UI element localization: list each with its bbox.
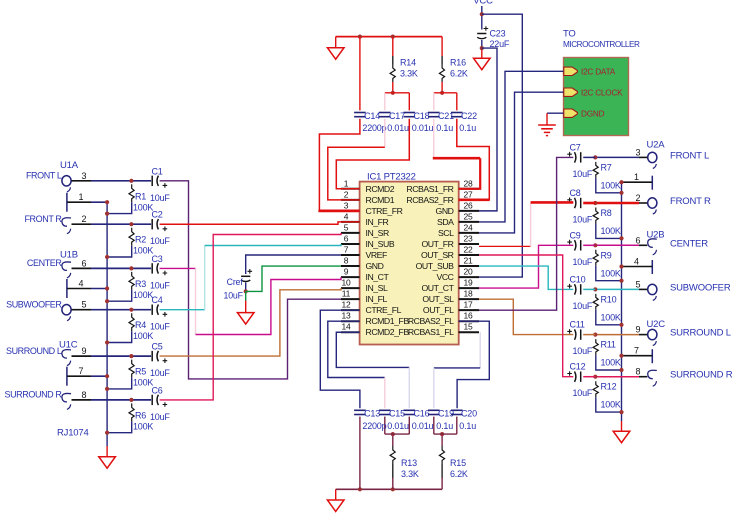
svg-text:FRONT L: FRONT L bbox=[26, 171, 62, 181]
wire pin 15 down (lavender) bbox=[479, 332, 481, 368]
svg-text:3.3K: 3.3K bbox=[401, 469, 419, 479]
wire OUT_FR to C8 bbox=[531, 201, 574, 204]
connector pin CENTER (curl) bbox=[62, 262, 71, 278]
wire bus to R16 bbox=[441, 37, 443, 56]
wire pin 28 riser bbox=[459, 158, 481, 189]
svg-text:VCC: VCC bbox=[473, 0, 493, 6]
lead R15 bottom black bbox=[441, 464, 443, 478]
svg-text:8: 8 bbox=[344, 256, 349, 266]
wire R16 junction spreader bbox=[434, 92, 457, 94]
svg-text:2: 2 bbox=[82, 214, 87, 224]
wire lead SURROUND R out bbox=[639, 376, 647, 378]
svg-text:SDA: SDA bbox=[437, 217, 454, 227]
wire cap C9 right lead bbox=[583, 244, 595, 246]
wire R9 to bus bbox=[596, 266, 622, 281]
svg-text:10uF: 10uF bbox=[573, 215, 593, 225]
svg-text:GND: GND bbox=[436, 206, 454, 216]
svg-text:GND: GND bbox=[366, 261, 384, 271]
svg-text:Cref: Cref bbox=[227, 277, 244, 287]
svg-text:C20: C20 bbox=[461, 409, 477, 419]
capacitor Cref 10uF bbox=[241, 269, 252, 282]
junction R13 top bbox=[391, 432, 395, 436]
wire Cref ground stub bbox=[245, 291, 247, 300]
svg-text:SURROUND L: SURROUND L bbox=[670, 328, 731, 339]
svg-text:8: 8 bbox=[636, 367, 641, 377]
resistor R12 100K bbox=[593, 381, 598, 397]
pin arrow I2C DATA bbox=[564, 67, 578, 75]
pin arrow DGND bbox=[564, 109, 578, 117]
pin 21 stub (OUT_SUB) bbox=[459, 265, 479, 267]
wire pin 15 stub ext bbox=[459, 331, 477, 333]
junction right bus R7 bbox=[619, 191, 623, 195]
junction C23 minus bbox=[480, 46, 484, 50]
svg-text:100K: 100K bbox=[133, 246, 153, 256]
junction C9 out bbox=[593, 243, 597, 247]
svg-text:DGND: DGND bbox=[581, 109, 605, 118]
svg-text:4: 4 bbox=[344, 211, 349, 221]
pin 25 stub (SDA) bbox=[459, 221, 479, 223]
lead R16 bottom bbox=[441, 82, 443, 93]
lead R13 top bbox=[392, 434, 394, 446]
svg-text:RCMD2_FB: RCMD2_FB bbox=[366, 327, 410, 337]
pin 13 stub (RCMD1_FB) bbox=[341, 320, 360, 322]
svg-text:SURROUND R: SURROUND R bbox=[4, 390, 62, 400]
wire R14 to C18 bbox=[408, 93, 410, 111]
resistor R14 3.3K bbox=[390, 64, 395, 82]
junction top bus R14 bbox=[391, 35, 395, 39]
wire lead FRONT L bbox=[72, 180, 92, 182]
junction SUBWOOFER row bbox=[129, 308, 133, 312]
pin 27 stub (RCBAS2_FR) bbox=[459, 199, 479, 201]
capacitor C6 10uF bbox=[152, 395, 167, 407]
svg-text:2200p: 2200p bbox=[362, 123, 386, 133]
svg-text:IN_FR: IN_FR bbox=[366, 217, 389, 227]
svg-text:17: 17 bbox=[463, 300, 473, 310]
svg-text:R12: R12 bbox=[601, 382, 617, 392]
junction Cref bbox=[244, 289, 248, 293]
wire right ground bus bbox=[621, 182, 623, 421]
svg-text:R10: R10 bbox=[601, 294, 617, 304]
pin 10 stub (IN_SL) bbox=[341, 287, 360, 289]
resistor R1 100K bbox=[129, 184, 134, 202]
svg-text:7: 7 bbox=[79, 366, 84, 376]
svg-text:100K: 100K bbox=[601, 312, 621, 322]
svg-text:R5: R5 bbox=[135, 367, 146, 377]
node left connector pin 7 stub bbox=[67, 367, 107, 386]
resistor R15 6.2K bbox=[439, 446, 444, 464]
junction bus row 4 bbox=[105, 286, 109, 290]
wire VCC stem bbox=[481, 6, 483, 30]
wire bottom bus bbox=[336, 488, 442, 490]
wire lead SURROUND R bbox=[72, 399, 92, 401]
capacitor C16 0.01u bbox=[404, 410, 416, 414]
junction top bus C14 bbox=[358, 35, 362, 39]
svg-text:9: 9 bbox=[82, 346, 87, 356]
capacitor C3 10uF bbox=[152, 263, 167, 275]
svg-text:0.01u: 0.01u bbox=[387, 421, 409, 431]
junction C8 out bbox=[593, 201, 597, 205]
junction bus R2 bbox=[105, 255, 109, 259]
svg-text:5: 5 bbox=[344, 222, 349, 232]
svg-text:3: 3 bbox=[82, 171, 87, 181]
svg-text:C7: C7 bbox=[570, 142, 581, 152]
wire C18 to pin 1 RCMD2 bbox=[336, 119, 409, 189]
svg-text:10uF: 10uF bbox=[573, 346, 593, 356]
svg-text:C4: C4 bbox=[152, 295, 163, 305]
svg-text:100K: 100K bbox=[601, 400, 621, 410]
junction right bus row 7 bbox=[619, 354, 623, 358]
junction bus R4 bbox=[105, 340, 109, 344]
junction C7 out bbox=[593, 155, 597, 159]
svg-text:RCBAS2_FL: RCBAS2_FL bbox=[408, 316, 454, 326]
svg-text:14: 14 bbox=[341, 322, 351, 332]
svg-text:SURROUND L: SURROUND L bbox=[6, 346, 62, 356]
svg-text:TO: TO bbox=[563, 29, 576, 40]
svg-text:20: 20 bbox=[463, 267, 473, 277]
wire lead FRONT R out bbox=[639, 202, 647, 204]
svg-text:VREF: VREF bbox=[366, 250, 388, 260]
svg-text:C18: C18 bbox=[414, 111, 430, 121]
svg-text:22: 22 bbox=[463, 245, 473, 255]
wire R5 to bus bbox=[107, 378, 132, 389]
wire C23 minus to pin 26 GND bbox=[479, 48, 497, 211]
pin 4 stub (IN_FR) bbox=[341, 221, 360, 223]
node right connector pin 4 stub bbox=[622, 260, 653, 274]
pin 2 stub (RCMD1) bbox=[341, 199, 360, 201]
junction CENTER row bbox=[129, 266, 133, 270]
wire C12 to connector bbox=[595, 376, 639, 378]
capacitor C11 10uF bbox=[567, 329, 580, 340]
wire pin 7 VREF to Cref bbox=[246, 255, 341, 274]
svg-text:2: 2 bbox=[636, 193, 641, 203]
resistor R7 100K bbox=[593, 162, 598, 178]
svg-text:7: 7 bbox=[634, 346, 639, 356]
ground left input bus bbox=[99, 457, 116, 469]
svg-text:CTRE_FR: CTRE_FR bbox=[366, 206, 403, 216]
svg-text:C8: C8 bbox=[570, 188, 581, 198]
svg-text:IN_SUB: IN_SUB bbox=[366, 239, 395, 249]
resistor R10 100K bbox=[593, 294, 598, 310]
svg-text:C3: C3 bbox=[152, 254, 163, 264]
wire I2C CLOCK to pin 24 SCL bbox=[479, 92, 564, 233]
svg-text:SCL: SCL bbox=[438, 228, 454, 238]
svg-text:10uF: 10uF bbox=[224, 291, 244, 301]
wire R1 to bus bbox=[107, 202, 132, 213]
connector pin SUBWOOFER out (circle) bbox=[648, 284, 657, 300]
wire lead CENTER out bbox=[639, 244, 647, 246]
wire pin 16 RCBAS2_FL to C20 bbox=[457, 321, 489, 408]
wire R16 to C21 (pale) bbox=[433, 93, 435, 111]
svg-text:2: 2 bbox=[344, 189, 349, 199]
capacitor C13 2200p bbox=[354, 410, 366, 414]
svg-text:C14: C14 bbox=[364, 111, 380, 121]
svg-text:C10: C10 bbox=[570, 274, 586, 284]
wire FRONT R to cap bbox=[91, 223, 151, 225]
wire R4 to bus bbox=[107, 331, 132, 342]
svg-text:RJ1074: RJ1074 bbox=[57, 428, 89, 439]
svg-text:SURROUND R: SURROUND R bbox=[670, 370, 733, 381]
svg-text:C12: C12 bbox=[570, 362, 586, 372]
wire C3 riser (pale) bbox=[195, 268, 197, 334]
junction C10 out bbox=[593, 287, 597, 291]
wire pin 17 OUT_FL to C7 bbox=[479, 157, 573, 310]
pin 1 stub (RCMD2) bbox=[341, 188, 360, 190]
svg-text:R9: R9 bbox=[601, 250, 612, 260]
svg-text:IN_FL: IN_FL bbox=[366, 294, 388, 304]
junction right bus R10 bbox=[619, 323, 623, 327]
svg-text:R6: R6 bbox=[135, 410, 146, 420]
svg-text:6: 6 bbox=[82, 258, 87, 268]
svg-text:100K: 100K bbox=[133, 331, 153, 341]
svg-text:C23: C23 bbox=[490, 29, 506, 39]
capacitor C23 22uF bbox=[477, 26, 488, 38]
wire R7 to bus bbox=[596, 178, 622, 193]
wire Cref to ground bbox=[245, 301, 247, 313]
wire lead SUBWOOFER out bbox=[639, 288, 647, 290]
svg-text:0.1u: 0.1u bbox=[436, 421, 453, 431]
wire C21 to pin 28 RCBAS1_FR bbox=[433, 157, 480, 160]
lead R13 bottom bbox=[392, 478, 394, 489]
svg-text:5: 5 bbox=[636, 279, 641, 289]
connector pin SURROUND L out (circle) bbox=[648, 329, 657, 345]
svg-text:SUBWOOFER: SUBWOOFER bbox=[6, 300, 62, 310]
capacitor C7 10uF bbox=[567, 152, 580, 163]
svg-text:C13: C13 bbox=[364, 409, 380, 419]
connector pin SURROUND L (curl) bbox=[62, 350, 71, 366]
svg-text:19: 19 bbox=[463, 278, 473, 288]
resistor R9 100K bbox=[593, 250, 598, 266]
svg-text:26: 26 bbox=[463, 200, 473, 210]
svg-text:IN_CT: IN_CT bbox=[366, 272, 390, 282]
svg-text:9: 9 bbox=[636, 325, 641, 335]
junction bottom bus R13 bbox=[391, 487, 395, 491]
lead R14 top bbox=[392, 56, 394, 64]
junction R14 bottom bbox=[391, 91, 395, 95]
connector pin FRONT L out (circle) bbox=[648, 152, 657, 168]
pin 17 stub (OUT_FL) bbox=[459, 309, 479, 311]
wire pin 19 OUT_CT to C9 bbox=[479, 245, 573, 288]
wire C20 to R15 bbox=[456, 417, 458, 435]
wire R3 to bus bbox=[107, 290, 132, 301]
connector pin FRONT R (curl) bbox=[62, 218, 71, 234]
capacitor C19 0.1u bbox=[428, 410, 440, 414]
svg-text:R3: R3 bbox=[135, 279, 146, 289]
wire bus to C14 bbox=[359, 37, 361, 111]
resistor R5 100K bbox=[129, 360, 134, 378]
wire cap C12 right lead bbox=[583, 376, 595, 378]
wire lead FRONT L out bbox=[639, 156, 647, 158]
capacitor C4 10uF bbox=[152, 305, 167, 317]
svg-text:25: 25 bbox=[463, 211, 473, 221]
ground Cref bbox=[237, 313, 254, 325]
pin 26 stub (GND) bbox=[459, 210, 479, 212]
svg-text:RCBAS1_FR: RCBAS1_FR bbox=[406, 184, 453, 194]
svg-text:R1: R1 bbox=[135, 191, 146, 201]
wire C3 to pin 9 IN_CT seg1 bbox=[160, 267, 196, 269]
svg-text:10uF: 10uF bbox=[150, 412, 170, 422]
svg-text:U2C: U2C bbox=[647, 319, 666, 330]
junction C11 out bbox=[593, 333, 597, 337]
svg-text:7: 7 bbox=[344, 245, 349, 255]
wire pin 13 RCMD1_FB to C15 bbox=[328, 321, 385, 377]
svg-text:OUT_SL: OUT_SL bbox=[422, 294, 454, 304]
junction right bus R11 bbox=[619, 368, 623, 372]
node left connector pin 4 stub bbox=[67, 279, 107, 298]
wire lead FRONT R bbox=[72, 223, 92, 225]
pin 7 stub (VREF) bbox=[341, 254, 360, 256]
wire SUBWOOFER to cap bbox=[91, 309, 151, 311]
svg-text:C22: C22 bbox=[461, 111, 477, 121]
wire pin 3 thick bbox=[318, 210, 359, 213]
svg-text:9: 9 bbox=[344, 267, 349, 277]
svg-text:RCMD1: RCMD1 bbox=[366, 195, 395, 205]
junction SURROUND R row bbox=[129, 398, 133, 402]
capacitor C10 10uF bbox=[567, 284, 580, 295]
svg-text:27: 27 bbox=[463, 189, 473, 199]
junction bus R6 bbox=[105, 431, 109, 435]
capacitor C21 0.1u bbox=[428, 113, 440, 117]
wire top bus bbox=[336, 36, 442, 38]
resistor R3 100K bbox=[129, 272, 134, 290]
wire C13 to bottom bus bbox=[359, 417, 361, 490]
wire C9 to connector bbox=[595, 244, 639, 246]
svg-text:0.1u: 0.1u bbox=[459, 421, 476, 431]
wire pin 22 OUT_SR to C12 bbox=[479, 255, 573, 377]
ground DGND (digital) bbox=[538, 125, 556, 136]
pin 22 stub (OUT_SR) bbox=[459, 254, 479, 256]
wire R11 to bus bbox=[596, 355, 622, 370]
svg-text:U2A: U2A bbox=[647, 140, 666, 151]
wire left ground bus bbox=[106, 202, 108, 446]
svg-text:10uF: 10uF bbox=[573, 169, 593, 179]
pin 6 stub (IN_SUB) bbox=[341, 243, 360, 245]
wire R2 to bus bbox=[107, 246, 132, 257]
wire left bus to ground bbox=[106, 446, 108, 457]
wire C22 to pin 27 RCBAS2_FR bbox=[457, 119, 490, 200]
pin arrow I2C CLOCK bbox=[564, 88, 578, 96]
wire C3 to pin 9 IN_CT seg2 bbox=[196, 277, 342, 334]
wire R14 to C17 (pale) bbox=[384, 93, 386, 111]
svg-text:OUT_CT: OUT_CT bbox=[421, 283, 454, 293]
svg-text:6.2K: 6.2K bbox=[450, 469, 468, 479]
capacitor C5 10uF bbox=[152, 351, 167, 363]
wire DGND stem bbox=[546, 113, 548, 125]
svg-text:10uF: 10uF bbox=[573, 301, 593, 311]
resistor R6 100K bbox=[129, 403, 134, 421]
svg-text:R11: R11 bbox=[601, 340, 616, 350]
junction FRONT L row bbox=[129, 179, 133, 183]
pin 3 stub (CTRE_FR) bbox=[341, 210, 360, 212]
wire OUT_FR riser (pale) bbox=[530, 202, 532, 246]
wire Cref bottom bbox=[245, 283, 247, 292]
pin 19 stub (OUT_CT) bbox=[459, 287, 479, 289]
junction VCC bbox=[480, 12, 484, 16]
ground top network bbox=[327, 48, 344, 60]
svg-text:1: 1 bbox=[344, 178, 349, 188]
wire pin 14 RCMD2_FB to C16 bbox=[336, 332, 409, 367]
junction bus row 1 bbox=[105, 200, 109, 204]
svg-text:RCBAS2_FR: RCBAS2_FR bbox=[406, 195, 453, 205]
svg-text:100K: 100K bbox=[133, 378, 153, 388]
wire C5 to pin 10 IN_SL bbox=[160, 288, 341, 356]
svg-text:C6: C6 bbox=[152, 385, 163, 395]
svg-text:10uF: 10uF bbox=[150, 322, 170, 332]
svg-text:U1A: U1A bbox=[60, 160, 79, 171]
resistor R8 100K bbox=[593, 208, 598, 224]
svg-text:FRONT R: FRONT R bbox=[670, 196, 711, 207]
svg-text:MICROCONTROLLER: MICROCONTROLLER bbox=[563, 40, 640, 49]
wire cap C7 right lead bbox=[583, 156, 595, 158]
svg-text:18: 18 bbox=[463, 289, 473, 299]
capacitor C18 0.01u bbox=[404, 113, 416, 117]
svg-text:3: 3 bbox=[636, 147, 641, 157]
wire pin 8 GND to Cref bbox=[246, 266, 341, 291]
wire R13 top spreader bbox=[385, 433, 410, 435]
wire C16 to R13 bbox=[408, 417, 410, 435]
connector pin FRONT R out (circle) bbox=[648, 198, 657, 214]
pin 20 stub (VCC) bbox=[459, 276, 479, 278]
wire bottom bus to ground bbox=[335, 489, 337, 500]
svg-text:SUBWOOFER: SUBWOOFER bbox=[670, 282, 731, 293]
svg-text:IN_SL: IN_SL bbox=[366, 283, 389, 293]
svg-text:23: 23 bbox=[463, 233, 473, 243]
svg-text:FRONT R: FRONT R bbox=[24, 214, 62, 224]
wire SURROUND L to cap bbox=[91, 355, 151, 357]
connector pin SUBWOOFER (circle) bbox=[62, 305, 71, 321]
wire lead SUBWOOFER bbox=[72, 309, 92, 311]
svg-text:0.1u: 0.1u bbox=[459, 123, 476, 133]
wire C11 to connector bbox=[595, 334, 639, 336]
junction right bus R9 bbox=[619, 279, 623, 283]
pin 5 stub (IN_SR) bbox=[341, 232, 360, 234]
svg-text:CENTER: CENTER bbox=[670, 238, 708, 249]
junction SURROUND L row bbox=[129, 354, 133, 358]
ground bottom network bbox=[327, 500, 344, 512]
svg-text:U1B: U1B bbox=[60, 250, 78, 261]
wire R10 to bus bbox=[596, 310, 622, 325]
capacitor C22 0.1u bbox=[451, 113, 463, 117]
wire pin 12 CTRE_FL to C13 bbox=[320, 310, 360, 408]
svg-text:4: 4 bbox=[79, 279, 84, 289]
wire C2 to pin 4 IN_FR bbox=[160, 222, 360, 224]
ground right output bus bbox=[613, 431, 630, 443]
wire C15 up (pale) bbox=[384, 378, 386, 409]
svg-text:R2: R2 bbox=[135, 235, 146, 245]
svg-text:10uF: 10uF bbox=[150, 368, 170, 378]
svg-text:C2: C2 bbox=[152, 210, 163, 220]
svg-text:VCC: VCC bbox=[437, 272, 454, 282]
svg-text:IN_SR: IN_SR bbox=[366, 228, 390, 238]
svg-text:11: 11 bbox=[342, 289, 351, 299]
svg-text:I2C DATA: I2C DATA bbox=[581, 68, 616, 77]
wire C10 to connector bbox=[595, 288, 639, 290]
svg-text:CTRE_FL: CTRE_FL bbox=[366, 305, 402, 315]
wire C21 down (pale) bbox=[433, 119, 435, 158]
pin 28 stub (RCBAS1_FR) bbox=[459, 188, 479, 190]
pin 8 stub (GND) bbox=[341, 265, 360, 267]
wire FRONT L to cap bbox=[91, 180, 151, 182]
resistor R16 6.2K bbox=[439, 64, 444, 82]
svg-text:I2C CLOCK: I2C CLOCK bbox=[581, 88, 623, 97]
capacitor C2 10uF bbox=[152, 219, 167, 231]
lead R16 top bbox=[441, 56, 443, 64]
svg-text:10uF: 10uF bbox=[573, 257, 593, 267]
svg-text:21: 21 bbox=[463, 256, 473, 266]
lead R15 bottom bbox=[441, 478, 443, 489]
svg-text:R4: R4 bbox=[135, 320, 146, 330]
svg-text:C15: C15 bbox=[389, 409, 405, 419]
wire R14 junction spreader bbox=[385, 92, 410, 94]
